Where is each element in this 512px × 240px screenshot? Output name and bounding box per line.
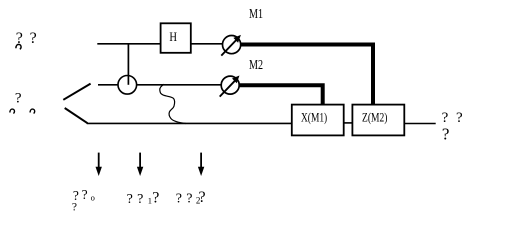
svg-text:?: ? [186,191,192,206]
EPR source bracket upper stroke [63,84,90,100]
svg-text:?: ? [456,110,463,126]
measurement meter M2 needle [220,80,236,97]
svg-text:o: o [91,192,95,202]
arrow stage 2 [137,153,143,176]
svg-text:Z(M2): Z(M2) [362,110,387,125]
wire qubit 2 rail right segment (CNOT to meter M2) [137,84,222,86]
gate H box [161,23,191,53]
state label psi2 (bottom group 3) [176,189,206,206]
svg-text:?: ? [73,188,79,203]
measurement meter M1 needle [221,39,237,56]
measurement meter M1 arrowhead [233,35,241,43]
svg-text:M2: M2 [249,57,263,72]
classical wire from M2 to X(M1) [239,85,322,105]
svg-text:?: ? [15,91,22,107]
state label psi0 (bottom group 1) [72,187,95,214]
squiggle wire (hand-drawn link between rail 2 and rail 3) [160,84,186,123]
svg-text:?: ? [137,192,143,207]
arrow stage 1 [96,153,102,176]
svg-text:?: ? [30,30,37,47]
svg-text:X(M1): X(M1) [301,110,327,125]
svg-text:?: ? [152,189,159,206]
svg-text:?: ? [442,110,449,126]
wire output of Z(M2) [404,123,435,125]
svg-text:?: ? [176,191,182,206]
svg-text:?: ? [127,192,133,207]
CNOT target circle [118,76,137,95]
wire qubit 3 bottom rail [87,122,292,124]
gate Z(M2) box [352,105,404,136]
node beta00 label (lower-left "?" / two small curls) [10,91,35,114]
gate X(M1) box [292,105,344,136]
svg-text:M1: M1 [249,6,263,21]
wire between X(M1) and Z(M2) [344,122,353,124]
measurement meter M2 circle [221,76,239,94]
wire CNOT control vertical [127,44,129,85]
svg-text:?: ? [72,202,77,214]
wire qubit 2 rail left segment [98,84,118,86]
svg-text:H: H [169,30,177,44]
wire top rail (qubit 1) [97,43,160,45]
arrow stage 3 [198,153,204,176]
svg-text:?: ? [442,125,450,144]
wire top rail right segment (H to meter M1) [191,43,223,45]
node psi-in label (top-left "? ?" / small curl) [16,30,37,49]
EPR source bracket lower stroke [65,108,88,123]
classical wire from M1 to Z(M2) [241,45,373,105]
measurement meter M2 arrowhead [232,76,240,84]
state label psi1 (bottom group 2) [127,189,160,207]
measurement meter M1 circle [223,36,241,54]
svg-text:?: ? [82,187,88,202]
node psi-out label (right "? ?" / "?") [442,110,463,144]
svg-text:?: ? [199,189,206,206]
